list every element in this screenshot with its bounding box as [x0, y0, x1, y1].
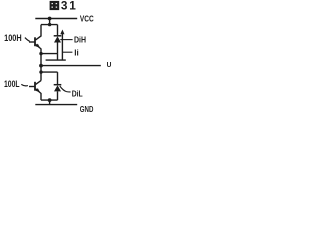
diode DiH triangle [54, 36, 61, 42]
transistor 100H collector lead [36, 25, 41, 40]
transistor 100H emitter with arrow [36, 44, 41, 53]
current arrow Ii shaft [61, 33, 63, 60]
label leader for 100H [25, 38, 30, 42]
node junction dot on VCC rail [48, 17, 52, 21]
svg-text:DiH: DiH [74, 34, 86, 44]
svg-text:DiL: DiL [72, 88, 83, 98]
svg-text:GND: GND [80, 104, 94, 114]
current arrow Ii tail horizontal [46, 59, 66, 61]
wire center rail vertical [40, 54, 42, 81]
diode DiL cathode bar [54, 84, 62, 86]
svg-text:U: U [107, 62, 112, 69]
svg-text:100H: 100H [4, 33, 22, 43]
svg-text:Ii: Ii [74, 48, 79, 58]
node U dot [39, 64, 43, 68]
label leader for DiH [60, 39, 72, 41]
label leader for 100L [21, 84, 28, 86]
diode DiH anode lead [57, 43, 59, 54]
node emitter join dot [39, 52, 42, 55]
svg-text:VCC: VCC [80, 13, 94, 23]
transistor 100L base bar [34, 82, 36, 91]
diode DiL cathode lead [57, 72, 59, 84]
wire top branch horizontal [41, 24, 58, 26]
node junction dot at top branch [48, 23, 51, 26]
wire GND rail horizontal [35, 104, 77, 106]
transistor 100L base lead [29, 86, 35, 88]
label leader for Ii [62, 51, 72, 53]
diode DiH cathode bar [54, 35, 62, 37]
svg-text:3: 3 [61, 0, 68, 13]
diode DiL triangle [54, 85, 61, 91]
wire VCC drop vertical [49, 19, 51, 25]
node lower branch dot [39, 70, 42, 73]
figure title box (zu kanji) [50, 1, 60, 10]
diode DiL anode lead [57, 91, 59, 100]
wire VCC rail horizontal [35, 18, 77, 20]
wire emitter join horizontal [41, 53, 58, 55]
label leader for DiL [60, 86, 71, 92]
transistor 100H base lead [29, 41, 35, 43]
wire hook from emitter join to arrow tail [57, 54, 59, 61]
svg-text:100L: 100L [4, 79, 20, 89]
diode DiH cathode lead [57, 25, 59, 36]
svg-text:1: 1 [69, 0, 76, 13]
current arrow Ii head [60, 30, 64, 35]
wire output U horizontal [41, 65, 101, 67]
wire lower branch horizontal [41, 71, 58, 73]
wire bottom join horizontal [41, 99, 58, 101]
wire GND drop vertical [49, 100, 51, 105]
node bottom join dot [48, 98, 52, 102]
transistor 100L emitter with arrow [36, 89, 41, 100]
transistor 100H base bar [34, 37, 36, 46]
transistor 100L collector lead [36, 81, 41, 85]
